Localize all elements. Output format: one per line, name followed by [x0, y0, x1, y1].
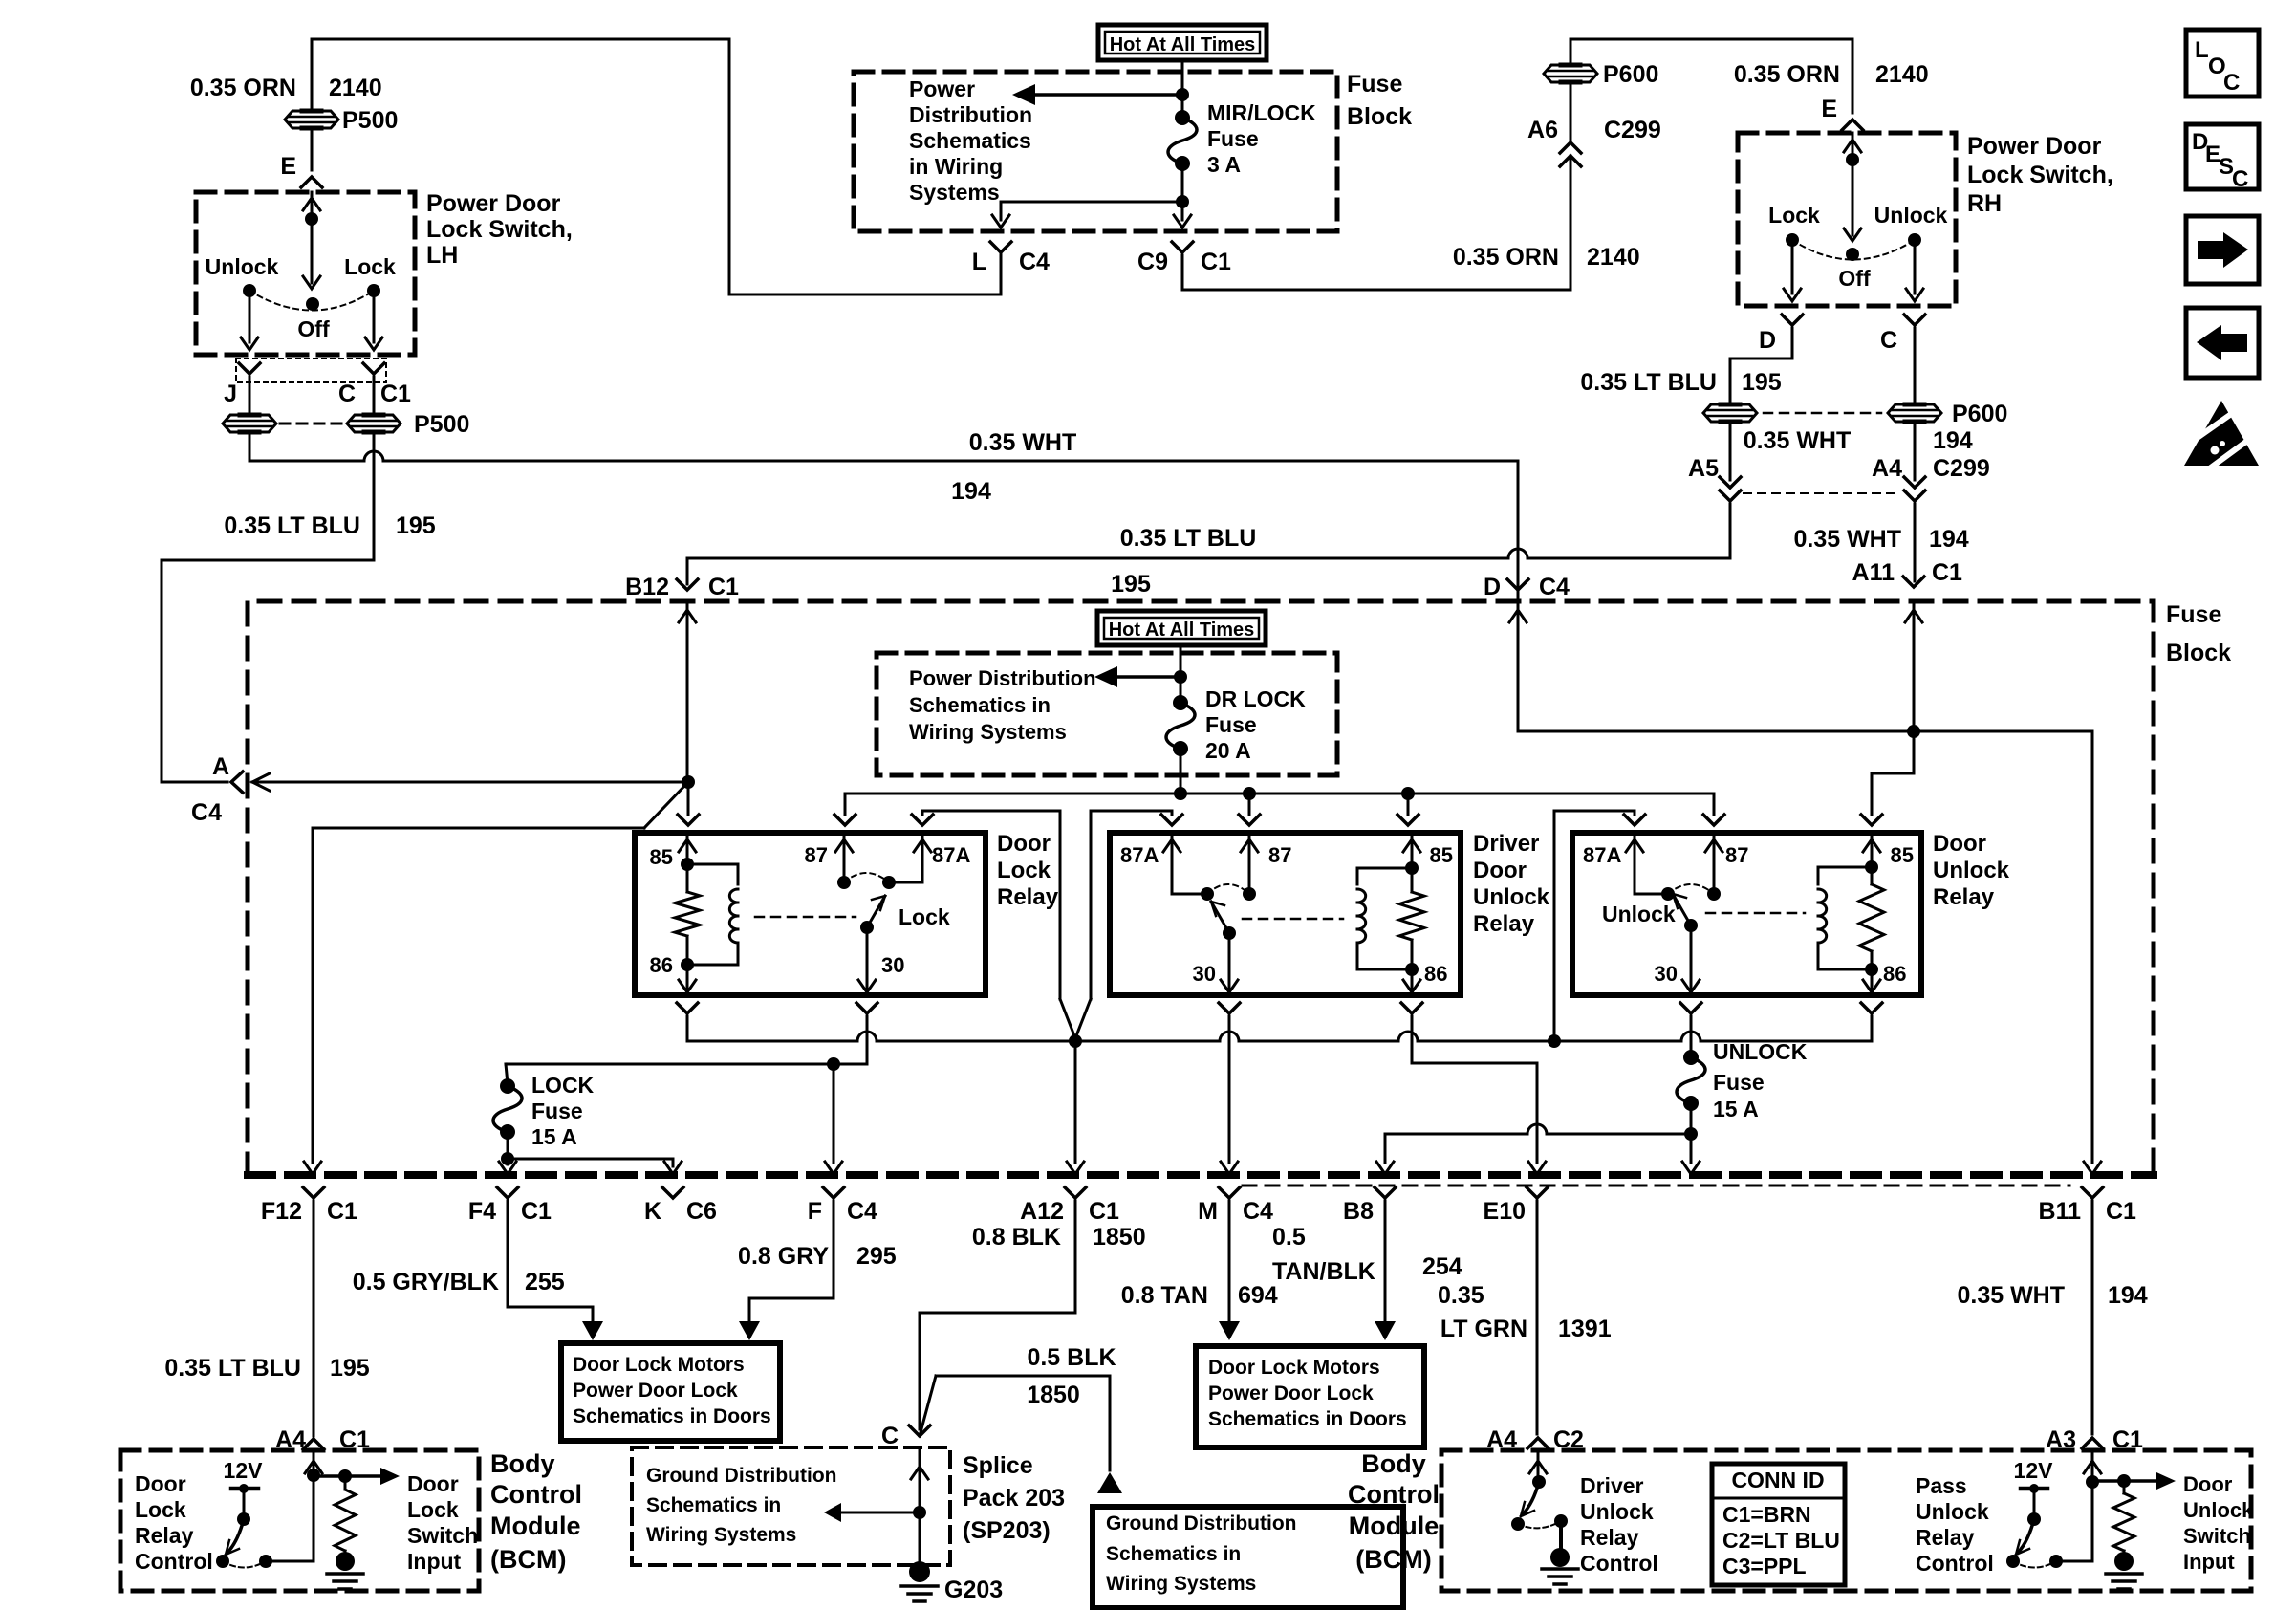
- svg-text:C1: C1: [1932, 559, 1962, 586]
- svg-text:A: A: [212, 753, 229, 780]
- svg-text:85: 85: [1430, 843, 1453, 867]
- svg-text:L: L: [972, 249, 986, 275]
- svg-text:15 A: 15 A: [531, 1124, 577, 1149]
- svg-text:C1: C1: [327, 1198, 357, 1225]
- svg-text:0.8 TAN: 0.8 TAN: [1121, 1282, 1208, 1309]
- svg-text:Schematics in Doors: Schematics in Doors: [1208, 1408, 1407, 1430]
- svg-text:Input: Input: [407, 1549, 462, 1574]
- svg-text:0.35 WHT: 0.35 WHT: [969, 429, 1077, 456]
- svg-text:C1: C1: [708, 574, 739, 600]
- svg-text:Schematics in: Schematics in: [646, 1494, 781, 1516]
- svg-text:Pack 203: Pack 203: [963, 1485, 1065, 1512]
- svg-text:0.5 BLK: 0.5 BLK: [1027, 1344, 1116, 1371]
- svg-text:Unlock: Unlock: [2183, 1498, 2254, 1522]
- svg-text:Unlock: Unlock: [1473, 884, 1550, 910]
- svg-text:DR LOCK: DR LOCK: [1205, 686, 1306, 711]
- svg-text:12V: 12V: [224, 1458, 264, 1483]
- svg-text:A4: A4: [1872, 455, 1902, 482]
- svg-text:Wiring Systems: Wiring Systems: [1106, 1573, 1256, 1595]
- svg-text:Body: Body: [1361, 1449, 1426, 1478]
- svg-text:Door: Door: [135, 1471, 186, 1496]
- svg-text:Systems: Systems: [909, 180, 1000, 205]
- svg-text:C: C: [2232, 166, 2248, 192]
- svg-text:MIR/LOCK: MIR/LOCK: [1207, 100, 1316, 125]
- svg-text:C: C: [1880, 327, 1897, 354]
- svg-text:87: 87: [1725, 843, 1748, 867]
- svg-text:Fuse: Fuse: [1205, 712, 1257, 737]
- svg-text:87A: 87A: [932, 843, 970, 867]
- svg-text:Unlock: Unlock: [1580, 1499, 1654, 1524]
- svg-text:Schematics in Doors: Schematics in Doors: [573, 1405, 771, 1427]
- svg-text:0.35 LT BLU: 0.35 LT BLU: [1580, 369, 1717, 396]
- svg-text:Door: Door: [1473, 858, 1527, 883]
- svg-text:86: 86: [1883, 962, 1906, 986]
- svg-text:0.35 ORN: 0.35 ORN: [1734, 61, 1840, 88]
- svg-text:194: 194: [2108, 1282, 2148, 1309]
- svg-text:Unlock: Unlock: [1874, 203, 1948, 228]
- svg-text:Driver: Driver: [1473, 831, 1539, 857]
- svg-text:Power Door: Power Door: [1967, 133, 2102, 160]
- svg-text:B11: B11: [2039, 1198, 2082, 1225]
- svg-text:Lock: Lock: [407, 1497, 459, 1522]
- svg-text:295: 295: [856, 1243, 897, 1270]
- svg-text:Switch: Switch: [2183, 1524, 2251, 1548]
- svg-text:Hot At All Times: Hot At All Times: [1110, 34, 1256, 55]
- svg-text:Schematics in: Schematics in: [1106, 1543, 1241, 1565]
- svg-text:D: D: [1759, 327, 1776, 354]
- svg-text:C4: C4: [1019, 249, 1050, 275]
- svg-text:3 A: 3 A: [1207, 152, 1241, 177]
- svg-text:Fuse: Fuse: [1713, 1070, 1765, 1095]
- svg-text:Relay: Relay: [1473, 911, 1535, 937]
- svg-text:A5: A5: [1688, 455, 1719, 482]
- svg-text:E: E: [1821, 96, 1837, 122]
- svg-text:Fuse: Fuse: [1207, 126, 1259, 151]
- svg-text:TAN/BLK: TAN/BLK: [1272, 1258, 1375, 1285]
- svg-text:C1: C1: [380, 381, 411, 407]
- svg-text:Splice: Splice: [963, 1452, 1033, 1479]
- svg-text:Block: Block: [2166, 640, 2231, 666]
- svg-text:B12: B12: [625, 574, 669, 600]
- svg-text:P500: P500: [414, 411, 469, 438]
- svg-text:J: J: [224, 381, 237, 407]
- svg-text:0.8 GRY: 0.8 GRY: [738, 1243, 829, 1270]
- svg-text:1850: 1850: [1027, 1382, 1080, 1408]
- svg-text:C1: C1: [1201, 249, 1231, 275]
- svg-text:0.35 WHT: 0.35 WHT: [1957, 1282, 2065, 1309]
- svg-text:2140: 2140: [1587, 244, 1640, 271]
- svg-text:Distribution: Distribution: [909, 102, 1032, 127]
- svg-text:P600: P600: [1952, 401, 2007, 427]
- svg-text:C3=PPL: C3=PPL: [1722, 1554, 1807, 1578]
- svg-text:P600: P600: [1603, 61, 1658, 88]
- svg-text:Power Door Lock: Power Door Lock: [573, 1380, 738, 1402]
- svg-text:0.35 LT BLU: 0.35 LT BLU: [1120, 525, 1257, 552]
- svg-text:Control: Control: [135, 1549, 213, 1574]
- svg-text:0.35 WHT: 0.35 WHT: [1793, 526, 1901, 553]
- svg-text:Lock: Lock: [135, 1497, 186, 1522]
- svg-text:C1=BRN: C1=BRN: [1722, 1502, 1811, 1527]
- svg-text:F4: F4: [468, 1198, 496, 1225]
- svg-text:Power Distribution: Power Distribution: [909, 666, 1096, 690]
- svg-text:C4: C4: [1243, 1198, 1273, 1225]
- svg-text:Module: Module: [1349, 1512, 1440, 1540]
- svg-text:85: 85: [1891, 843, 1914, 867]
- svg-text:30: 30: [1655, 962, 1678, 986]
- svg-text:Schematics: Schematics: [909, 128, 1031, 153]
- svg-text:Off: Off: [297, 316, 330, 341]
- svg-text:C9: C9: [1137, 249, 1168, 275]
- svg-text:Ground Distribution: Ground Distribution: [1106, 1512, 1296, 1534]
- svg-text:L: L: [2195, 37, 2209, 63]
- svg-text:87: 87: [805, 843, 828, 867]
- svg-text:30: 30: [1193, 962, 1216, 986]
- svg-text:(BCM): (BCM): [490, 1545, 566, 1574]
- svg-text:1850: 1850: [1093, 1224, 1146, 1251]
- svg-text:Fuse: Fuse: [2166, 601, 2221, 628]
- svg-text:195: 195: [396, 512, 436, 539]
- svg-text:Power: Power: [909, 76, 975, 101]
- svg-text:Control: Control: [490, 1480, 582, 1509]
- svg-text:Driver: Driver: [1580, 1473, 1644, 1498]
- svg-text:in Wiring: in Wiring: [909, 154, 1003, 179]
- svg-text:A11: A11: [1852, 559, 1895, 586]
- svg-text:Block: Block: [1347, 103, 1412, 130]
- svg-text:86: 86: [650, 953, 673, 977]
- svg-text:Relay: Relay: [997, 884, 1059, 910]
- svg-text:194: 194: [1933, 427, 1973, 454]
- svg-text:Control: Control: [1916, 1551, 1994, 1576]
- svg-text:87A: 87A: [1120, 843, 1159, 867]
- svg-text:Fuse: Fuse: [531, 1099, 583, 1123]
- svg-text:P500: P500: [342, 107, 398, 134]
- svg-text:Lock: Lock: [997, 858, 1051, 883]
- svg-text:Off: Off: [1838, 266, 1871, 291]
- svg-text:Body: Body: [490, 1449, 555, 1478]
- svg-text:Door: Door: [407, 1471, 459, 1496]
- svg-text:195: 195: [1742, 369, 1782, 396]
- svg-text:LOCK: LOCK: [531, 1073, 595, 1098]
- svg-text:C2=LT BLU: C2=LT BLU: [1722, 1528, 1840, 1553]
- svg-text:1391: 1391: [1558, 1316, 1612, 1342]
- svg-text:Fuse: Fuse: [1347, 71, 1402, 98]
- svg-text:2140: 2140: [1875, 61, 1929, 88]
- svg-text:Relay: Relay: [1580, 1525, 1639, 1550]
- svg-text:Wiring Systems: Wiring Systems: [909, 720, 1067, 744]
- svg-text:B8: B8: [1343, 1198, 1374, 1225]
- svg-text:LH: LH: [426, 242, 458, 269]
- svg-text:Ground Distribution: Ground Distribution: [646, 1465, 836, 1487]
- svg-text:F12: F12: [261, 1198, 302, 1225]
- svg-text:(SP203): (SP203): [963, 1517, 1051, 1544]
- svg-text:C: C: [2223, 70, 2240, 96]
- svg-text:UNLOCK: UNLOCK: [1713, 1039, 1808, 1064]
- svg-text:15 A: 15 A: [1713, 1097, 1759, 1121]
- svg-text:195: 195: [330, 1355, 370, 1382]
- svg-text:Pass: Pass: [1916, 1473, 1967, 1498]
- svg-text:694: 694: [1238, 1282, 1278, 1309]
- svg-text:C: C: [881, 1423, 899, 1449]
- svg-text:Control: Control: [1580, 1551, 1658, 1576]
- svg-text:Unlock: Unlock: [1916, 1499, 1989, 1524]
- svg-text:K: K: [644, 1198, 661, 1225]
- svg-text:(BCM): (BCM): [1355, 1545, 1431, 1574]
- svg-text:Lock Switch,: Lock Switch,: [1967, 162, 2113, 188]
- svg-text:Lock: Lock: [1768, 203, 1820, 228]
- svg-text:Unlock: Unlock: [206, 254, 279, 279]
- svg-text:Relay: Relay: [1933, 884, 1995, 910]
- svg-text:254: 254: [1422, 1253, 1462, 1280]
- svg-text:C: C: [338, 381, 356, 407]
- svg-text:87: 87: [1268, 843, 1291, 867]
- svg-text:Switch: Switch: [407, 1523, 478, 1548]
- svg-text:C4: C4: [847, 1198, 877, 1225]
- svg-text:E: E: [280, 153, 296, 180]
- svg-text:0.35 LT BLU: 0.35 LT BLU: [224, 512, 360, 539]
- svg-text:87A: 87A: [1583, 843, 1621, 867]
- svg-text:12V: 12V: [2014, 1458, 2054, 1483]
- svg-text:194: 194: [951, 478, 991, 505]
- svg-text:Module: Module: [490, 1512, 581, 1540]
- svg-text:Input: Input: [2183, 1550, 2235, 1574]
- svg-text:0.35 ORN: 0.35 ORN: [190, 75, 296, 101]
- svg-text:20 A: 20 A: [1205, 738, 1251, 763]
- svg-text:A6: A6: [1527, 117, 1558, 143]
- svg-text:Unlock: Unlock: [1602, 902, 1676, 926]
- svg-text:G203: G203: [944, 1577, 1003, 1603]
- svg-text:D: D: [1484, 574, 1501, 600]
- svg-text:Door Lock Motors: Door Lock Motors: [1208, 1357, 1380, 1379]
- svg-text:Unlock: Unlock: [1933, 858, 2010, 883]
- svg-text:Hot At All Times: Hot At All Times: [1109, 620, 1255, 641]
- svg-text:Power Door Lock: Power Door Lock: [1208, 1382, 1374, 1404]
- svg-text:Wiring Systems: Wiring Systems: [646, 1524, 796, 1546]
- svg-text:Control: Control: [1348, 1480, 1440, 1509]
- svg-text:86: 86: [1424, 962, 1447, 986]
- svg-text:Lock: Lock: [344, 254, 396, 279]
- svg-text:C299: C299: [1933, 455, 1990, 482]
- svg-text:LT GRN: LT GRN: [1440, 1316, 1527, 1342]
- svg-text:0.8 BLK: 0.8 BLK: [972, 1224, 1061, 1251]
- svg-text:Door: Door: [997, 831, 1051, 857]
- svg-text:195: 195: [1111, 571, 1151, 598]
- svg-text:0.5 GRY/BLK: 0.5 GRY/BLK: [353, 1269, 499, 1295]
- svg-text:F: F: [808, 1198, 822, 1225]
- svg-text:Lock: Lock: [899, 904, 950, 929]
- svg-text:C6: C6: [686, 1198, 717, 1225]
- svg-text:0.35 LT BLU: 0.35 LT BLU: [164, 1355, 301, 1382]
- svg-text:Relay: Relay: [1916, 1525, 1975, 1550]
- svg-text:CONN ID: CONN ID: [1731, 1468, 1824, 1492]
- svg-text:E10: E10: [1484, 1198, 1526, 1225]
- svg-text:Door: Door: [2183, 1472, 2233, 1496]
- svg-text:Lock Switch,: Lock Switch,: [426, 216, 573, 243]
- svg-text:194: 194: [1929, 526, 1969, 553]
- svg-text:Door: Door: [1933, 831, 1986, 857]
- svg-text:M: M: [1198, 1198, 1218, 1225]
- svg-text:0.5: 0.5: [1272, 1224, 1306, 1251]
- svg-text:30: 30: [881, 953, 904, 977]
- svg-text:C1: C1: [1089, 1198, 1119, 1225]
- svg-text:C4: C4: [191, 799, 222, 826]
- svg-text:RH: RH: [1967, 190, 2002, 217]
- svg-text:C1: C1: [521, 1198, 552, 1225]
- svg-text:0.35 WHT: 0.35 WHT: [1744, 427, 1852, 454]
- svg-text:255: 255: [525, 1269, 565, 1295]
- svg-text:Power Door: Power Door: [426, 190, 561, 217]
- svg-text:C1: C1: [2106, 1198, 2136, 1225]
- svg-text:0.35 ORN: 0.35 ORN: [1453, 244, 1559, 271]
- svg-text:0.35: 0.35: [1438, 1282, 1484, 1309]
- svg-text:Schematics in: Schematics in: [909, 693, 1051, 717]
- svg-text:C299: C299: [1604, 117, 1661, 143]
- svg-text:C4: C4: [1539, 574, 1570, 600]
- svg-text:2140: 2140: [329, 75, 382, 101]
- svg-text:85: 85: [650, 845, 673, 869]
- svg-text:Relay: Relay: [135, 1523, 194, 1548]
- svg-text:A12: A12: [1020, 1198, 1064, 1225]
- svg-text:Door Lock Motors: Door Lock Motors: [573, 1354, 745, 1376]
